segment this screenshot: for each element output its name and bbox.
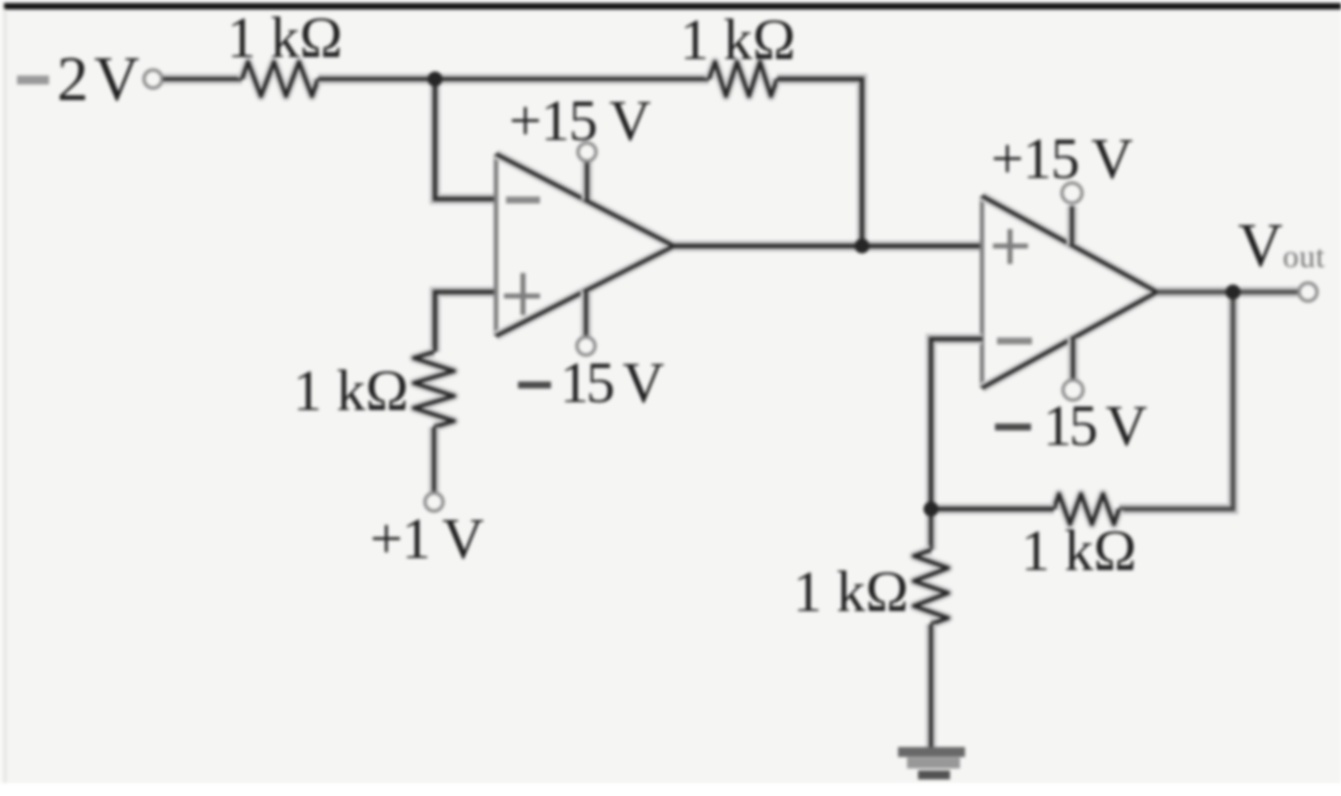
svg-text:1 kΩ: 1 kΩ <box>227 5 343 70</box>
resistor R2 <box>709 62 777 96</box>
svg-text:+1 V: +1 V <box>370 506 484 571</box>
terminal +1V <box>425 493 443 511</box>
node C junction dot <box>1226 285 1241 300</box>
-15V supply U1 <box>577 291 595 355</box>
node A junction dot <box>428 72 443 87</box>
svg-text:1 kΩ: 1 kΩ <box>793 559 909 624</box>
svg-text:15 V: 15 V <box>1043 393 1147 458</box>
op-amp U1 <box>496 154 674 336</box>
resistor R1 <box>242 62 318 96</box>
terminal Vout <box>1299 283 1317 301</box>
wire: node A down and to U1 inverting input <box>435 79 496 199</box>
svg-text:1 kΩ: 1 kΩ <box>680 7 796 72</box>
svg-text:+15 V: +15 V <box>509 88 651 153</box>
svg-text:15 V: 15 V <box>560 350 664 415</box>
label -2V <box>17 44 140 114</box>
+15V supply U1 <box>578 143 596 200</box>
svg-text:2V: 2V <box>57 44 140 114</box>
top border bar <box>4 3 1341 10</box>
node B junction dot <box>855 239 870 254</box>
resistor R4 <box>1054 494 1119 524</box>
wire: R4 to node D <box>931 504 1054 515</box>
svg-text:+15 V: +15 V <box>991 126 1133 191</box>
svg-text:1 kΩ: 1 kΩ <box>293 358 409 423</box>
ground <box>898 752 965 775</box>
bottom white strip <box>0 783 1341 796</box>
label -15V U2 <box>995 393 1147 458</box>
wire: R3 to +1V terminal <box>429 427 440 492</box>
+15V supply U2 <box>1062 183 1082 245</box>
wire: R1 to node A <box>318 74 435 85</box>
label -15V U1 <box>518 350 664 415</box>
left border <box>4 9 7 783</box>
wire: R2 to corner and down to node B <box>777 79 862 246</box>
wire: node A to R2 <box>435 74 709 85</box>
wire: node D down to R5 <box>926 509 937 550</box>
-15V supply U2 <box>1063 338 1083 400</box>
node D junction dot <box>924 502 939 517</box>
wire: -2V terminal to R1 <box>163 74 242 85</box>
wire: U1 output to node B and to U2 <box>674 241 982 252</box>
wire: U2 output to Vout <box>1157 287 1298 298</box>
wire: U1 noninverting input to corner and down <box>435 292 496 352</box>
resistor R5 <box>914 550 948 624</box>
resistor R3 <box>414 352 454 427</box>
wire: U2 inverting input from node D <box>931 339 982 509</box>
op-amp U2 <box>982 196 1157 388</box>
wire: R5 to ground <box>926 624 937 750</box>
wire: node C down and left through R4 to node D <box>1119 292 1233 509</box>
terminal -2V <box>144 70 162 88</box>
svg-text:1 kΩ: 1 kΩ <box>1021 518 1137 583</box>
